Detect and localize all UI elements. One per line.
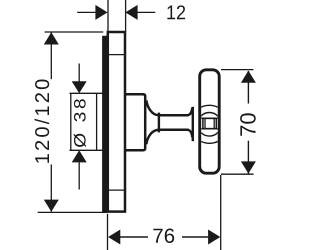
dim 120/120: dimension line lower [50, 165, 52, 212]
flare neck-to-collar bottom [188, 130, 192, 137]
hidden sleeve line behind plate [96, 93, 98, 150]
collar inner circle on bar [198, 113, 222, 137]
dim 12: tail right [137, 11, 155, 13]
dim 120/120: extension line bottom [38, 211, 104, 213]
dim 76: extension line right [220, 175, 222, 250]
wall flange (filled) [102, 36, 107, 213]
dim Ø38: extension/edge line top [70, 92, 103, 94]
dim 76: label [153, 228, 174, 243]
logo plate inner line right [213, 118, 215, 128]
dim 76: arrow left-pointing [108, 230, 120, 245]
flare hub-to-neck top [146, 100, 159, 115]
dim 12: tail left [77, 11, 96, 13]
collar cap at handle side [192, 107, 194, 141]
dim 120/120: arrow up [44, 32, 59, 44]
flare hub-to-neck bottom [146, 130, 159, 144]
handle bar (front view pill) [200, 70, 220, 173]
dim 120/120: label [35, 80, 50, 163]
dim 12: extension line left [107, 0, 109, 32]
dim 76: arrow right-pointing [208, 230, 220, 245]
dim Ø38: arrow down (outside) [72, 81, 87, 93]
plate chamfer line top [107, 54, 124, 56]
dim Ø38: label [74, 99, 86, 147]
dim 76: extension line left [107, 214, 109, 250]
flare neck-to-collar top [188, 108, 192, 115]
collar outer circle on bar [190, 105, 228, 143]
logo plate inner line left [204, 118, 206, 128]
dim 120/120: dimension line upper [50, 32, 52, 79]
dim 12: extension line right [125, 0, 127, 32]
dim 12: arrow right-pointing [95, 5, 107, 20]
neck bottom line [159, 129, 189, 132]
plate chamfer line bottom [107, 189, 124, 191]
dim 70: extension line top [221, 69, 254, 71]
dim 76: line left segment [120, 236, 148, 238]
dim Ø38: arrow up (outside) [72, 150, 87, 162]
dim 70: arrow up [241, 71, 256, 83]
dim Ø38: stub line below [78, 162, 80, 190]
mid band bottom line [201, 128, 218, 130]
neck top line [159, 114, 189, 117]
hidden sleeve line left [70, 93, 72, 150]
dim Ø38: extension/edge line bottom [70, 149, 103, 151]
neck cap at hub side [158, 113, 160, 133]
dim 70: dimension line lower [247, 141, 249, 174]
dim 70: extension line bottom [221, 173, 254, 175]
hub (Ø38 sleeve) [126, 94, 146, 150]
dim 70: dimension line upper [247, 71, 249, 104]
dim 76: line right segment [182, 236, 208, 238]
escutcheon plate outline [108, 32, 125, 212]
dim Ø38: stub line above [78, 64, 80, 82]
dim 70: label [240, 113, 256, 135]
dim 70: arrow down [241, 161, 256, 173]
dim 12: label [167, 5, 185, 19]
logo plate rect [203, 118, 216, 128]
dim 120/120: extension line top [45, 31, 104, 33]
mid band top line [201, 117, 218, 119]
dim 120/120: arrow down [44, 200, 59, 212]
dim 12: arrow left-pointing [125, 5, 137, 20]
